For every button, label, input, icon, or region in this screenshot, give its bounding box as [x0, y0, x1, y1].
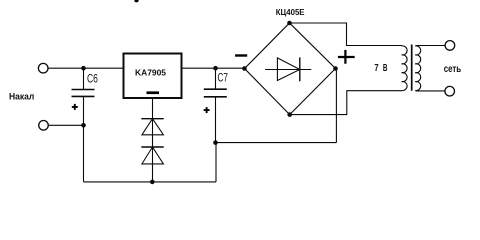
wire transformer primary bottom to bridge bottom vertex — [290, 91, 402, 115]
capacitor C7 plus polarity mark — [204, 107, 210, 113]
wire secondary top to net terminal — [416, 45, 445, 47]
transformer core — [411, 45, 413, 91]
junction C7 top node — [213, 66, 218, 71]
svg-text:C7: C7 — [218, 70, 228, 84]
wire C7 bottom lead — [215, 97, 217, 143]
junction bridge bottom vertex — [287, 112, 292, 117]
junction C6 top node — [81, 66, 86, 71]
wire ground rail — [84, 181, 217, 183]
wire secondary bottom to net terminal — [416, 90, 445, 92]
bridge minus polarity mark — [235, 54, 247, 56]
junction C7 bottom node — [213, 140, 218, 145]
terminal X3 (сеть top) — [445, 41, 455, 51]
junction bridge top vertex — [287, 21, 292, 26]
wire C6 top lead — [83, 68, 85, 89]
wire C6 bottom lead down to ground rail — [83, 96, 85, 181]
junction diode chain at rail — [150, 180, 155, 185]
junction bridge minus vertex — [242, 66, 247, 71]
transformer T1 secondary winding — [415, 46, 420, 91]
svg-text:KA7905: KA7905 — [135, 67, 166, 77]
terminal X4 (сеть bottom) — [445, 86, 455, 96]
diode VD2 — [141, 147, 163, 164]
wire rail riser to C7-bottom node — [215, 143, 217, 182]
transformer T1 primary winding — [402, 46, 407, 91]
regulator ground-pin minus bar — [147, 91, 160, 94]
bridge inner diode — [265, 57, 311, 81]
wire bridge plus vertical leg — [335, 69, 337, 143]
regulator U1 KA7905 box — [124, 54, 182, 99]
junction C6 bottom node — [81, 123, 86, 128]
junction bridge plus vertex — [333, 66, 338, 71]
svg-text:В: В — [383, 63, 388, 74]
diode VD1 — [141, 119, 163, 135]
capacitor C7 plates — [204, 89, 227, 97]
wire bridge top vertex to transformer primary top — [290, 23, 403, 46]
wire node to bridge plus leg — [216, 142, 337, 144]
terminal X2 (Накал bottom) — [39, 121, 49, 131]
svg-text:C6: C6 — [87, 72, 98, 86]
wire diode chain vertical — [152, 98, 154, 182]
svg-text:сеть: сеть — [444, 64, 462, 75]
terminal X1 (Накал top) — [38, 63, 48, 73]
wire regulator output to bridge minus vertex — [182, 67, 245, 69]
stray mark at top edge — [134, 0, 138, 2]
capacitor C6 plates — [72, 90, 95, 97]
capacitor C6 plus polarity mark — [72, 104, 78, 110]
bridge rectifier KЦ405E diamond — [245, 23, 336, 115]
svg-text:7: 7 — [374, 63, 379, 74]
bridge plus polarity mark — [338, 50, 355, 64]
wire bottom-left from terminal to C6 junction — [48, 124, 83, 126]
svg-text:КЦ405Е: КЦ405Е — [276, 7, 305, 17]
wire C7 top lead — [215, 68, 217, 89]
wire top-left from terminal to regulator input — [48, 67, 124, 69]
svg-text:Накал: Накал — [9, 92, 35, 102]
